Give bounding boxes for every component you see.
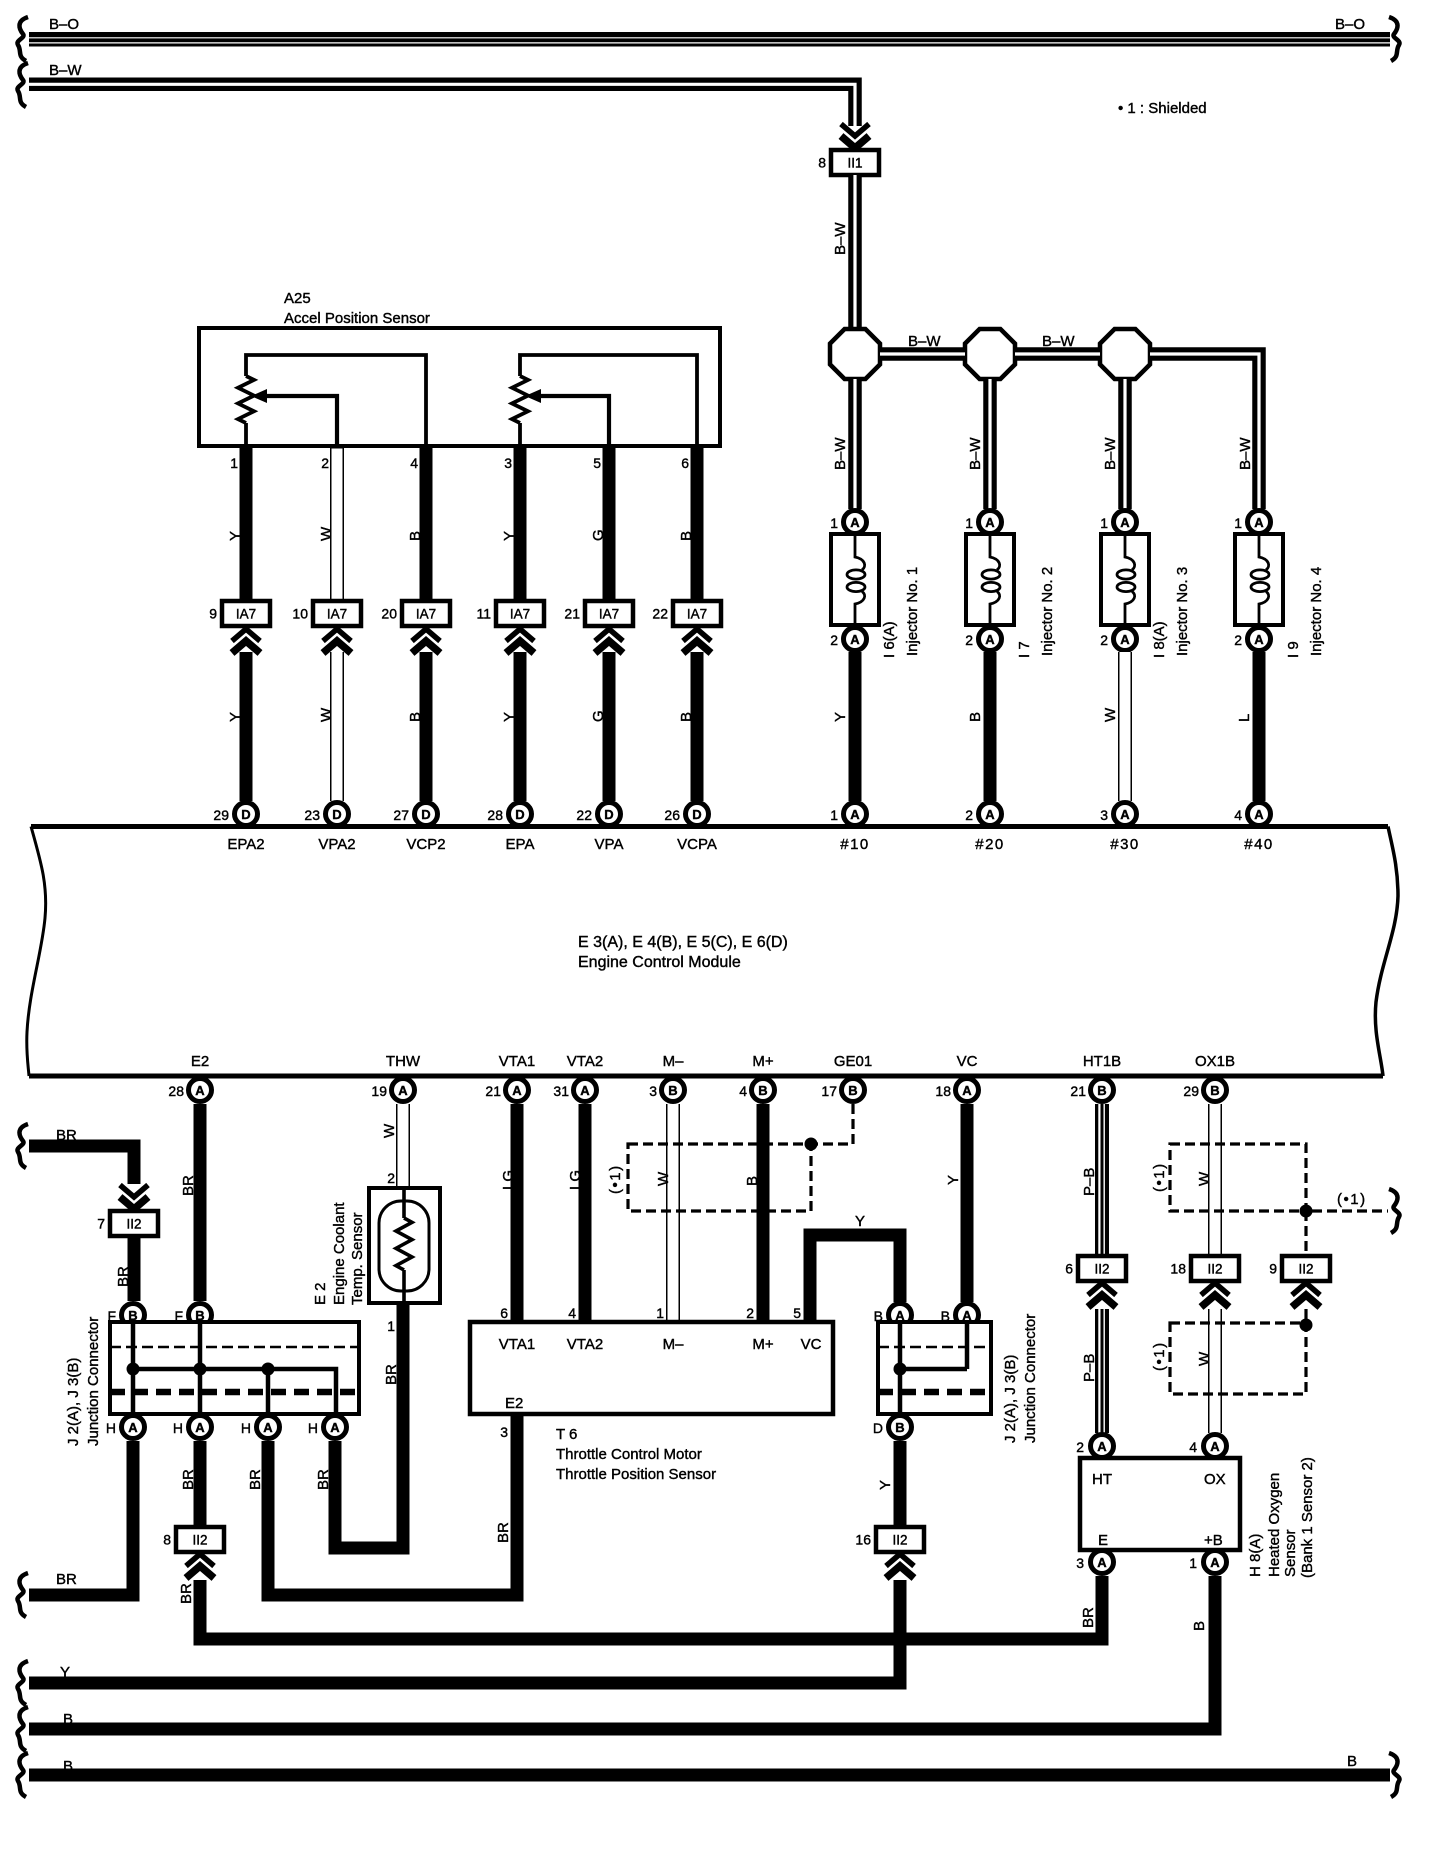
- svg-text:Y: Y: [60, 1664, 70, 1681]
- potentiometer 2 resistor: [512, 376, 528, 423]
- svg-text:+B: +B: [1204, 1532, 1223, 1549]
- wire B-W from II1 to junction octagon 1: [848, 175, 862, 331]
- wire B-W octagon1 down to injector1: [848, 379, 862, 509]
- svg-text:11: 11: [476, 606, 491, 622]
- svg-text:20: 20: [381, 606, 397, 622]
- wire shield drain GE01 dashed: [815, 1104, 853, 1144]
- shield dashed box lower right: [1170, 1323, 1306, 1394]
- svg-text:M+: M+: [752, 1053, 773, 1070]
- svg-text:Y: Y: [501, 712, 518, 722]
- junction connector 1 pin H(A) 3: [241, 1416, 280, 1439]
- svg-text:23: 23: [304, 807, 320, 823]
- svg-text:28: 28: [168, 1083, 184, 1099]
- svg-text:H: H: [308, 1420, 318, 1436]
- oxygen sensor pin 3(A) E: [1076, 1551, 1113, 1574]
- svg-text:P–B: P–B: [1081, 1168, 1098, 1196]
- svg-text:6: 6: [1065, 1261, 1073, 1277]
- svg-text:D: D: [421, 807, 430, 822]
- svg-text:D: D: [241, 807, 250, 822]
- svg-text:9: 9: [209, 606, 217, 622]
- svg-text:M–: M–: [663, 1336, 684, 1353]
- wire B IA7 to ECM: [420, 652, 433, 801]
- svg-text:3: 3: [504, 455, 512, 471]
- svg-text:D: D: [873, 1420, 883, 1436]
- svg-text:A: A: [398, 1083, 408, 1098]
- svg-text:A: A: [1120, 632, 1130, 647]
- svg-text:26: 26: [664, 807, 680, 823]
- arrow into connector 22 IA7: [683, 629, 711, 653]
- injector I6 pin 2 circle: [830, 628, 866, 651]
- wire B-W octagon2 down to injector2: [983, 379, 997, 509]
- svg-text:Y: Y: [855, 1213, 865, 1230]
- ECM pin 19(A) THW: [371, 1079, 414, 1102]
- shield dashed box upper right: [1170, 1144, 1306, 1211]
- svg-text:• 1 : Shielded: • 1 : Shielded: [1118, 100, 1207, 117]
- svg-text:I 7: I 7: [1016, 641, 1033, 658]
- svg-text:A: A: [1254, 807, 1264, 822]
- svg-text:#20: #20: [975, 836, 1005, 853]
- svg-text:VTA2: VTA2: [567, 1053, 603, 1070]
- svg-text:A: A: [1254, 632, 1264, 647]
- svg-text:L: L: [1236, 714, 1253, 722]
- wire B-W octagon2 to octagon3: [1015, 347, 1100, 361]
- svg-text:B: B: [895, 1420, 904, 1435]
- svg-text:7: 7: [97, 1216, 105, 1232]
- svg-text:(•1): (•1): [1151, 1341, 1168, 1371]
- svg-text:8: 8: [818, 155, 826, 171]
- svg-text:B–W: B–W: [832, 222, 849, 255]
- svg-text:B: B: [1210, 1083, 1219, 1098]
- svg-text:B: B: [1097, 1083, 1106, 1098]
- connector 8 II1: [818, 150, 879, 175]
- svg-text:VC: VC: [801, 1336, 822, 1353]
- wire G IA7 to ECM: [603, 652, 616, 801]
- svg-text:D: D: [692, 807, 701, 822]
- svg-text:17: 17: [821, 1083, 837, 1099]
- svg-text:3: 3: [649, 1083, 657, 1099]
- connector 18 II2: [1170, 1256, 1239, 1281]
- wire W IA7 to ECM: [330, 652, 344, 801]
- svg-text:A: A: [850, 515, 860, 530]
- ECM pin 26(D) VCPA: [664, 803, 708, 826]
- svg-text:4: 4: [739, 1083, 747, 1099]
- connector 9 IA7: [209, 601, 270, 626]
- svg-text:A: A: [1120, 515, 1130, 530]
- wire Y A25 pin to IA7: [514, 446, 527, 601]
- svg-text:BR: BR: [178, 1583, 195, 1604]
- svg-text:Y: Y: [832, 712, 849, 722]
- potentiometer 2 wiper arrow to pin 5: [525, 389, 609, 446]
- svg-text:22: 22: [652, 606, 668, 622]
- svg-text:IA7: IA7: [416, 607, 436, 622]
- junction octagon J1: [830, 329, 880, 379]
- svg-text:B: B: [407, 712, 424, 722]
- svg-text:21: 21: [1070, 1083, 1086, 1099]
- junction connector 2 internal dashed lower thick: [878, 1389, 991, 1396]
- svg-text:(•1): (•1): [1151, 1162, 1168, 1192]
- svg-text:B: B: [407, 531, 424, 541]
- component ECM box (E3/E4/E5/E6 Engine Control Module): [27, 827, 1398, 1077]
- ECM pin 27(D) VCP2: [393, 803, 437, 826]
- svg-text:#40: #40: [1244, 836, 1274, 853]
- svg-text:Sensor: Sensor: [1282, 1529, 1299, 1577]
- connector 22 IA7: [652, 601, 721, 626]
- component H8(A) heated oxygen sensor box: [1080, 1458, 1240, 1550]
- wire bus B-O (triple-stripe horizontal rail): [29, 38, 1390, 43]
- oxygen sensor pin 4(A) OX: [1189, 1435, 1226, 1458]
- ECM pin 21(B) HT1B: [1070, 1079, 1113, 1102]
- svg-text:OX1B: OX1B: [1195, 1053, 1235, 1070]
- curly continuation end BR feed: [17, 1124, 28, 1168]
- arrow into connector 20 IA7: [412, 629, 440, 653]
- svg-text:VC: VC: [957, 1053, 978, 1070]
- svg-text:E2: E2: [191, 1053, 209, 1070]
- svg-text:1: 1: [1189, 1555, 1197, 1571]
- arrow into connector 21 IA7: [595, 629, 623, 653]
- svg-text:(•1): (•1): [607, 1164, 624, 1194]
- wire BR ECT sensor to junction H pin 4: [335, 1303, 403, 1548]
- svg-text:1: 1: [1234, 515, 1242, 531]
- svg-text:W: W: [381, 1123, 398, 1138]
- wire B-W octagon1 to octagon2: [880, 347, 965, 361]
- svg-text:B: B: [678, 712, 695, 722]
- svg-text:2: 2: [321, 455, 329, 471]
- svg-text:VPA2: VPA2: [318, 836, 355, 853]
- wire B oxygen +B to B rail: [29, 1576, 1215, 1729]
- svg-text:B–O: B–O: [1335, 16, 1365, 33]
- svg-text:VTA2: VTA2: [567, 1336, 603, 1353]
- svg-text:21: 21: [564, 606, 580, 622]
- wire Y IA7 to ECM: [514, 652, 527, 801]
- ECM pin 22(D) VPA: [576, 803, 620, 826]
- ECM pin 23(D) VPA2: [304, 803, 348, 826]
- svg-text:1: 1: [965, 515, 973, 531]
- ECM pin 21(A) VTA1: [485, 1079, 528, 1102]
- curly continuation end Y rail: [17, 1661, 28, 1705]
- svg-text:B: B: [744, 1176, 761, 1186]
- junction octagon J3: [1100, 329, 1150, 379]
- wire B A25 pin to IA7: [420, 446, 433, 601]
- svg-text:A: A: [1097, 1439, 1107, 1454]
- svg-text:II2: II2: [126, 1217, 141, 1232]
- connector 16 II2: [855, 1527, 924, 1552]
- svg-text:1: 1: [656, 1305, 664, 1321]
- wire Y injector1 to ECM #10: [849, 652, 862, 801]
- svg-text:B: B: [668, 1083, 677, 1098]
- svg-text:A: A: [330, 1420, 340, 1435]
- svg-text:A: A: [985, 632, 995, 647]
- injector I6 body with coil: [831, 534, 879, 625]
- component junction connector 2 J2(A) J3(B) box: [878, 1322, 991, 1414]
- junction connector 1 pin F(B) right: [174, 1304, 211, 1327]
- connector 9 II2: [1269, 1256, 1330, 1281]
- svg-text:A: A: [512, 1083, 522, 1098]
- svg-text:IA7: IA7: [236, 607, 256, 622]
- connector 8 II2: [163, 1527, 224, 1552]
- ECM pin 29(B) OX1B: [1183, 1079, 1226, 1102]
- svg-text:4: 4: [1189, 1439, 1197, 1455]
- svg-text:BR: BR: [383, 1364, 400, 1385]
- svg-text:Y: Y: [877, 1480, 894, 1490]
- svg-text:3: 3: [1100, 807, 1108, 823]
- svg-text:Temp. Sensor: Temp. Sensor: [349, 1212, 366, 1305]
- wire Y throttle VC to junction connector 2: [810, 1235, 900, 1322]
- junction dot 3: [262, 1363, 275, 1376]
- svg-text:4: 4: [1234, 807, 1242, 823]
- svg-text:28: 28: [487, 807, 503, 823]
- svg-text:II2: II2: [192, 1533, 207, 1548]
- curly continuation end B rail 2 left: [17, 1753, 28, 1797]
- svg-text:I 8(A): I 8(A): [1151, 621, 1168, 658]
- svg-text:EPA: EPA: [506, 836, 535, 853]
- potentiometer 2 top wire to pin 6: [520, 355, 697, 446]
- injector I7 pin 2 circle: [965, 628, 1001, 651]
- svg-text:A: A: [580, 1083, 590, 1098]
- svg-text:W: W: [318, 707, 335, 722]
- wire Y A25 pin to IA7: [240, 446, 253, 601]
- svg-text:22: 22: [576, 807, 592, 823]
- svg-text:VPA: VPA: [595, 836, 624, 853]
- svg-text:B: B: [967, 712, 984, 722]
- arrow into connector 10 IA7: [323, 629, 351, 653]
- svg-text:IA7: IA7: [599, 607, 619, 622]
- svg-text:D: D: [515, 807, 524, 822]
- svg-text:2: 2: [1100, 632, 1108, 648]
- svg-text:II2: II2: [892, 1533, 907, 1548]
- svg-text:B: B: [678, 531, 695, 541]
- ECM pin 3(B) M–: [649, 1079, 684, 1102]
- wire Y 16 II2 to Y rail: [29, 1580, 900, 1683]
- svg-text:G: G: [590, 710, 607, 722]
- component junction connector 1 J2(A) J3(B) box: [110, 1322, 359, 1414]
- svg-text:29: 29: [213, 807, 229, 823]
- svg-text:GE01: GE01: [834, 1053, 872, 1070]
- wire shield drain dashed to lower box: [1304, 1309, 1307, 1323]
- injector I7 pin 1 circle: [965, 511, 1001, 534]
- junction connector 2 pin B(A) left: [874, 1304, 912, 1327]
- svg-text:W: W: [318, 526, 335, 541]
- svg-text:BR: BR: [115, 1266, 132, 1287]
- svg-text:#30: #30: [1110, 836, 1140, 853]
- svg-text:W: W: [1196, 1171, 1213, 1186]
- injector I8 pin 2 circle: [1100, 628, 1136, 651]
- svg-text:A: A: [850, 807, 860, 822]
- svg-text:M+: M+: [752, 1336, 773, 1353]
- curly continuation end B rail 2 right: [1389, 1753, 1400, 1797]
- svg-text:G: G: [590, 529, 607, 541]
- wire LG VTA2 ECM to throttle: [579, 1104, 592, 1322]
- svg-text:LG: LG: [567, 1170, 584, 1190]
- potentiometer 1 wiper arrow to pin 2: [251, 389, 337, 446]
- svg-text:W: W: [1102, 707, 1119, 722]
- svg-text:5: 5: [793, 1305, 801, 1321]
- ECM pin 17(B) GE01: [821, 1079, 864, 1102]
- svg-text:A: A: [128, 1420, 138, 1435]
- wire L injector4 to ECM #40: [1253, 652, 1266, 801]
- wire W injector3 to ECM #30: [1118, 652, 1132, 801]
- wire B bottom rail: [29, 1769, 1390, 1782]
- connector 21 IA7: [564, 601, 633, 626]
- svg-text:18: 18: [1170, 1261, 1186, 1277]
- svg-text:BR: BR: [495, 1522, 512, 1543]
- junction connector 2 pin D(B): [873, 1416, 912, 1439]
- wire W M- ECM to throttle: [666, 1104, 680, 1322]
- svg-text:B: B: [1191, 1621, 1208, 1631]
- svg-text:II1: II1: [847, 156, 862, 171]
- ECM pin 29(D) EPA2: [213, 803, 257, 826]
- svg-text:6: 6: [500, 1305, 508, 1321]
- svg-text:VCP2: VCP2: [406, 836, 445, 853]
- svg-text:BR: BR: [180, 1175, 197, 1196]
- svg-text:4: 4: [410, 455, 418, 471]
- ECM pin 3(A) #30: [1100, 803, 1136, 826]
- svg-text:LG: LG: [500, 1170, 517, 1190]
- svg-text:2: 2: [746, 1305, 754, 1321]
- ECM pin 28(A) E2: [168, 1079, 211, 1102]
- svg-text:4: 4: [568, 1305, 576, 1321]
- svg-text:A: A: [195, 1083, 205, 1098]
- svg-text:IA7: IA7: [687, 607, 707, 622]
- svg-text:B: B: [63, 1711, 73, 1728]
- wire BR II2 to junction connector F pin: [128, 1236, 141, 1301]
- svg-text:W: W: [1196, 1351, 1213, 1366]
- junction connector 1 internal dashed line upper: [110, 1346, 359, 1349]
- svg-text:1: 1: [830, 807, 838, 823]
- svg-text:E2: E2: [505, 1395, 523, 1412]
- connector 6 II2: [1065, 1256, 1126, 1281]
- svg-text:3: 3: [500, 1424, 508, 1440]
- svg-text:H: H: [106, 1420, 116, 1436]
- svg-text:8: 8: [163, 1532, 171, 1548]
- junction connector 2 internal dashed upper: [878, 1346, 991, 1349]
- ECM pin 1(A) #10: [830, 803, 866, 826]
- svg-text:B–W: B–W: [967, 437, 984, 470]
- wire bus B-W with corner drop at x=855: [29, 84, 855, 126]
- svg-text:Junction Connector: Junction Connector: [85, 1317, 102, 1446]
- svg-text:VCPA: VCPA: [677, 836, 717, 853]
- svg-text:IA7: IA7: [327, 607, 347, 622]
- wire W A25 pin to IA7: [330, 446, 344, 601]
- svg-text:OX: OX: [1204, 1471, 1226, 1488]
- wire BR ECM E2 to junction connector: [194, 1104, 207, 1301]
- arrow into connector 6 II2: [1088, 1283, 1116, 1307]
- svg-text:I 9: I 9: [1285, 641, 1302, 658]
- wire W OX1B ECM to 18 II2: [1208, 1104, 1222, 1256]
- svg-text:I 6(A): I 6(A): [881, 621, 898, 658]
- svg-text:B–W: B–W: [49, 62, 82, 79]
- svg-text:3: 3: [1076, 1555, 1084, 1571]
- svg-text:16: 16: [855, 1532, 871, 1548]
- potentiometer 2 bottom wire to pin 3: [518, 423, 522, 446]
- svg-text:B–W: B–W: [1237, 437, 1254, 470]
- svg-text:2: 2: [387, 1170, 395, 1186]
- junction connector 1 internal bus line with elbow: [133, 1369, 336, 1414]
- svg-text:Y: Y: [945, 1175, 962, 1185]
- wire shield drain dashed vertical: [1304, 1211, 1307, 1256]
- svg-text:B: B: [758, 1083, 767, 1098]
- svg-text:21: 21: [485, 1083, 501, 1099]
- svg-text:A: A: [1120, 807, 1130, 822]
- junction connector 2 pin B(A) right: [941, 1304, 979, 1327]
- junction connector 2 internal verticals: [900, 1322, 967, 1414]
- junction connector 1 pin H(A) 1: [106, 1416, 145, 1439]
- svg-text:E 3(A), E 4(B), E 5(C), E 6(D): E 3(A), E 4(B), E 5(C), E 6(D): [578, 934, 788, 951]
- svg-text:B: B: [848, 1083, 857, 1098]
- arrow into connector 18 II2: [1201, 1283, 1229, 1307]
- svg-text:VTA1: VTA1: [499, 1336, 535, 1353]
- svg-text:HT1B: HT1B: [1083, 1053, 1121, 1070]
- injector I6 pin 1 circle: [830, 511, 866, 534]
- svg-text:Y: Y: [227, 531, 244, 541]
- arrow into connector 7 II2: [120, 1185, 148, 1209]
- junction connector 1 pin F(B) left: [107, 1304, 144, 1327]
- svg-text:M–: M–: [663, 1053, 684, 1070]
- svg-text:B: B: [1347, 1753, 1357, 1770]
- wire B injector2 to ECM #20: [984, 652, 997, 801]
- injector I9 pin 2 circle: [1234, 628, 1270, 651]
- wire B M+ ECM to throttle: [757, 1104, 770, 1322]
- svg-text:2: 2: [965, 632, 973, 648]
- wire B A25 pin to IA7: [691, 446, 704, 601]
- svg-text:HT: HT: [1092, 1471, 1112, 1488]
- svg-text:J 2(A), J 3(B): J 2(A), J 3(B): [1002, 1355, 1019, 1443]
- shield drain dot upper right: [1300, 1205, 1313, 1218]
- svg-text:Injector No. 3: Injector No. 3: [1174, 567, 1191, 656]
- wire B-W octagon3 down to injector3: [1118, 379, 1132, 509]
- ECM pin 18(A) VC: [935, 1079, 978, 1102]
- svg-text:IA7: IA7: [510, 607, 530, 622]
- svg-text:(Bank 1 Sensor 2): (Bank 1 Sensor 2): [1299, 1457, 1316, 1578]
- svg-text:D: D: [332, 807, 341, 822]
- svg-text:BR: BR: [56, 1127, 77, 1144]
- component A25 accel position sensor box: [199, 328, 720, 446]
- svg-text:10: 10: [292, 606, 308, 622]
- junction connector 1 pin H(A) 2: [173, 1416, 212, 1439]
- svg-text:31: 31: [553, 1083, 569, 1099]
- svg-text:1: 1: [387, 1318, 395, 1334]
- svg-text:THW: THW: [386, 1053, 421, 1070]
- svg-text:B–W: B–W: [1042, 333, 1075, 350]
- svg-text:II2: II2: [1207, 1262, 1222, 1277]
- svg-text:6: 6: [681, 455, 689, 471]
- ECM pin 4(B) M+: [739, 1079, 774, 1102]
- svg-text:5: 5: [593, 455, 601, 471]
- curly continuation end B-W left: [17, 63, 28, 107]
- svg-text:BR: BR: [315, 1469, 332, 1490]
- svg-text:Throttle Control Motor: Throttle Control Motor: [556, 1446, 702, 1463]
- svg-text:H: H: [173, 1420, 183, 1436]
- svg-text:Injector No. 4: Injector No. 4: [1308, 567, 1325, 656]
- svg-text:Throttle Position Sensor: Throttle Position Sensor: [556, 1466, 716, 1483]
- svg-text:Accel Position Sensor: Accel Position Sensor: [284, 310, 430, 327]
- junction octagon J2: [965, 329, 1015, 379]
- svg-text:BR: BR: [247, 1469, 264, 1490]
- shield dashed box around M wires: [628, 1144, 811, 1211]
- svg-text:B–W: B–W: [908, 333, 941, 350]
- wire BR 8 II2 to oxygen sensor E pin: [200, 1576, 1102, 1639]
- wire BR junction H1 to left edge: [29, 1441, 133, 1595]
- wire Y IA7 to ECM: [240, 652, 253, 801]
- svg-text:2: 2: [830, 632, 838, 648]
- svg-text:A: A: [985, 515, 995, 530]
- ECM pin 31(A) VTA2: [553, 1079, 596, 1102]
- svg-text:(•1): (•1): [1337, 1191, 1367, 1208]
- wire Y VC ECM to junction connector 2: [961, 1104, 974, 1302]
- ECM pin 28(D) EPA: [487, 803, 531, 826]
- svg-text:B–O: B–O: [49, 16, 79, 33]
- injector I8 body with coil: [1101, 534, 1149, 625]
- wire W THW ECM to ECT sensor: [396, 1104, 410, 1188]
